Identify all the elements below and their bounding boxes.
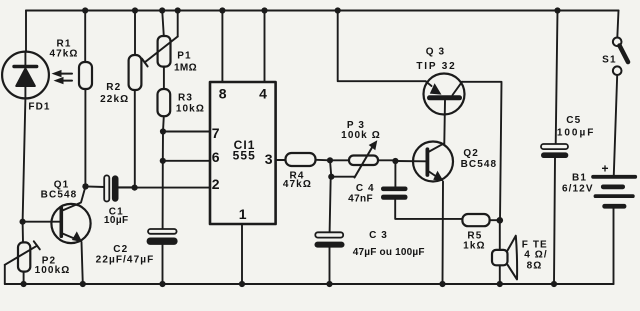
svg-text:Q 3: Q 3	[426, 47, 445, 58]
svg-text:7: 7	[212, 125, 220, 141]
node pin7 junction	[160, 128, 166, 134]
svg-text:S1: S1	[602, 54, 616, 65]
capacitor C1	[86, 175, 135, 201]
svg-text:FD1: FD1	[28, 102, 50, 113]
resistor R5	[462, 214, 499, 226]
wire pin 7	[163, 131, 210, 133]
svg-text:100kΩ: 100kΩ	[35, 265, 71, 276]
svg-text:555: 555	[233, 149, 256, 163]
svg-text:2: 2	[212, 176, 220, 192]
potentiometer P1	[142, 11, 178, 67]
svg-text:C2: C2	[113, 244, 128, 255]
svg-text:47kΩ: 47kΩ	[283, 179, 312, 190]
node R4/P3 junction	[327, 157, 333, 163]
svg-text:Q2: Q2	[463, 148, 479, 159]
svg-text:B1: B1	[572, 173, 587, 184]
capacitor C4	[381, 161, 462, 219]
svg-text:1kΩ: 1kΩ	[463, 241, 485, 252]
wire left column to FD1	[25, 11, 27, 52]
svg-text:1MΩ: 1MΩ	[174, 63, 197, 74]
node R2 bottom junction	[132, 185, 138, 191]
svg-text:3: 3	[265, 151, 273, 167]
svg-text:+: +	[601, 162, 609, 176]
node wiper junction	[328, 174, 334, 180]
svg-text:47µF ou 100µF: 47µF ou 100µF	[353, 247, 425, 258]
potentiometer P3	[330, 140, 395, 177]
speaker FTE	[492, 220, 517, 284]
node R5/speaker junction	[497, 217, 504, 224]
node Q3 emitter rail junction	[335, 7, 341, 13]
wire R3/pin7/pin6/C2 vertical chain	[162, 132, 164, 230]
svg-text:R2: R2	[106, 82, 121, 93]
resistor R3	[158, 67, 171, 132]
wire Q3 collector	[462, 82, 502, 221]
resistor R2	[129, 11, 142, 185]
svg-text:6: 6	[212, 149, 220, 165]
light arrow 2	[54, 77, 73, 84]
svg-text:C5: C5	[566, 115, 581, 126]
capacitor C3	[315, 232, 345, 284]
wire pin 3	[276, 159, 286, 161]
wire pin 6	[163, 160, 210, 162]
wire pin 2 from C1	[119, 187, 211, 189]
svg-text:BC548: BC548	[41, 190, 78, 201]
switch S1	[613, 11, 628, 175]
svg-text:22µF/47µF: 22µF/47µF	[96, 255, 155, 266]
wire P3 wiper return	[330, 160, 355, 176]
node Q1 base junction	[20, 219, 26, 225]
capacitor C2	[147, 229, 178, 284]
node dots top rail	[82, 7, 88, 13]
svg-text:BC548: BC548	[461, 159, 498, 170]
wire pin 1	[241, 224, 243, 284]
transistor Q2	[395, 142, 453, 285]
node C5 top rail	[554, 7, 560, 13]
svg-text:47nF: 47nF	[348, 194, 373, 205]
svg-text:4: 4	[259, 85, 267, 101]
capacitor C5	[541, 11, 568, 285]
node R1/C1/Q1 junction	[82, 183, 88, 189]
svg-text:8: 8	[219, 86, 227, 102]
svg-text:6/12V: 6/12V	[562, 183, 594, 194]
svg-text:C 4: C 4	[356, 183, 375, 194]
svg-text:47kΩ: 47kΩ	[49, 49, 78, 60]
wire bottom rail	[5, 283, 614, 285]
node pin6 junction	[160, 158, 166, 164]
svg-text:F TE: F TE	[522, 239, 548, 250]
svg-text:8Ω: 8Ω	[527, 261, 543, 272]
svg-text:100µF: 100µF	[557, 127, 596, 138]
svg-text:100k Ω: 100k Ω	[341, 130, 381, 141]
IC CI1 555	[210, 82, 276, 224]
node Q2 base/C4 junction	[392, 158, 398, 164]
resistor R1	[79, 11, 92, 184]
wire FD1 to Q1 base node	[23, 99, 26, 222]
light arrow 1	[52, 70, 73, 77]
svg-text:R3: R3	[178, 92, 193, 103]
wire pin 4	[264, 11, 266, 83]
svg-text:P1: P1	[177, 51, 191, 62]
photodiode FD1	[2, 52, 49, 99]
svg-text:C 3: C 3	[369, 230, 388, 241]
wire Q3 emitter feed	[338, 11, 426, 82]
svg-text:4 Ω/: 4 Ω/	[524, 250, 548, 261]
wire top rail	[26, 10, 619, 12]
transistor Q3	[424, 74, 465, 144]
svg-text:10µF: 10µF	[104, 215, 129, 226]
svg-text:22kΩ: 22kΩ	[100, 94, 129, 105]
battery B1	[591, 175, 637, 284]
svg-text:TIP 32: TIP 32	[416, 61, 456, 72]
wire pin 8	[221, 11, 223, 83]
svg-text:1: 1	[239, 206, 247, 222]
node dots bottom rail	[80, 281, 86, 287]
transistor Q1	[23, 186, 91, 284]
resistor R4	[286, 153, 331, 166]
potentiometer P2	[5, 222, 40, 284]
node P2 bottom on rail	[21, 281, 27, 287]
wire to C3	[330, 177, 331, 233]
svg-text:10kΩ: 10kΩ	[176, 103, 205, 114]
